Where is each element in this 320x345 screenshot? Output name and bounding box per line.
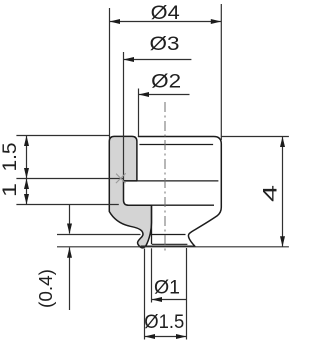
svg-text:(0.4): (0.4) bbox=[36, 269, 56, 308]
centerline bbox=[164, 102, 166, 253]
left dimension stack 1.5 / 1 bbox=[16, 136, 123, 205]
extension line bottom bbox=[16, 204, 118, 206]
svg-text:Ø1.5: Ø1.5 bbox=[144, 311, 184, 333]
cup outline right half (external) bbox=[139, 137, 222, 247]
extension line top (cup top) bbox=[16, 135, 109, 137]
dim line bbox=[282, 137, 284, 247]
lip top edge right segment bbox=[150, 234, 185, 236]
svg-text:1.5: 1.5 bbox=[0, 142, 21, 171]
dimension Ø1 bbox=[151, 248, 153, 302]
inner edge below top face bbox=[139, 144, 213, 146]
orifice wall edge bbox=[151, 205, 153, 244]
dimension Ø2 bbox=[138, 89, 140, 137]
dimension (0.4) bbox=[57, 205, 289, 311]
svg-text:Ø2: Ø2 bbox=[151, 71, 181, 93]
dim line bbox=[26, 136, 28, 205]
extension line bottom (shared with height dim) bbox=[57, 246, 289, 248]
extension line top bbox=[221, 136, 289, 138]
svg-text:Ø4: Ø4 bbox=[151, 2, 180, 24]
right dimension 4 bbox=[221, 137, 289, 247]
dimension Ø3 bbox=[123, 52, 125, 181]
extension line right bbox=[220, 4, 222, 140]
svg-text:Ø3: Ø3 bbox=[150, 33, 180, 55]
dim line bbox=[110, 21, 222, 23]
sectioned cup wall (gray section) bbox=[109, 136, 151, 247]
cavity ceiling edge bbox=[124, 180, 219, 182]
extension line lip top bbox=[57, 234, 141, 236]
svg-text:1: 1 bbox=[0, 183, 21, 197]
hole bottom edge bbox=[129, 204, 215, 206]
dimension Ø1.5 bbox=[145, 248, 187, 340]
extension line mid bbox=[16, 178, 123, 180]
svg-text:4: 4 bbox=[260, 185, 282, 202]
extension line left bbox=[109, 8, 111, 139]
svg-text:Ø1: Ø1 bbox=[154, 276, 180, 298]
dimension Ø4 bbox=[110, 4, 222, 140]
slash marks at mid extension line end bbox=[116, 173, 126, 183]
bottom face inner edge bbox=[152, 243, 187, 245]
